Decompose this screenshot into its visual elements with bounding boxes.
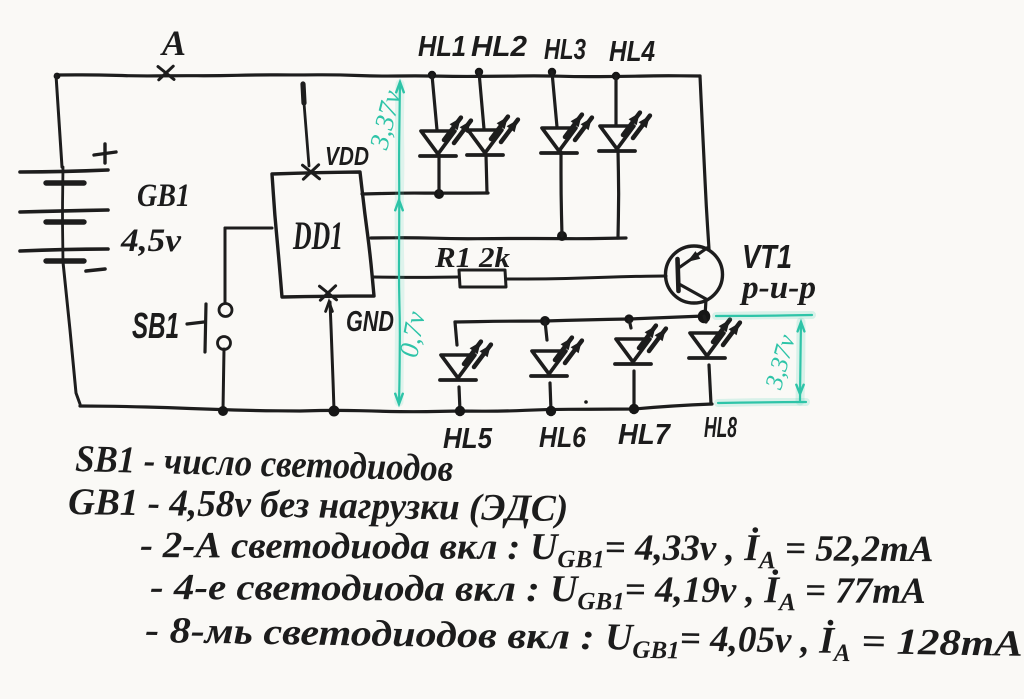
- svg-text:SB1: SB1: [132, 305, 179, 346]
- svg-text:HL7: HL7: [618, 419, 672, 451]
- svg-text:GB1 - 4,58v без нагрузки (ЭДС): GB1 - 4,58v без нагрузки (ЭДС): [68, 481, 569, 530]
- svg-text:HL4: HL4: [609, 36, 655, 68]
- svg-text:HL3: HL3: [544, 34, 586, 66]
- svg-text:HL2: HL2: [471, 31, 527, 63]
- svg-text:p-и-p: p-и-p: [739, 270, 816, 306]
- svg-text:DD1: DD1: [292, 213, 343, 258]
- svg-text:GB1: GB1: [137, 178, 190, 214]
- svg-text:GND: GND: [346, 306, 394, 338]
- svg-text:4,5v: 4,5v: [120, 223, 181, 259]
- svg-text:HL8: HL8: [704, 412, 738, 444]
- svg-text:VDD: VDD: [325, 141, 369, 171]
- svg-text:HL6: HL6: [539, 422, 587, 454]
- svg-text:HL1: HL1: [418, 31, 466, 63]
- svg-text:R1 2k: R1 2k: [434, 243, 510, 274]
- svg-text:A: A: [160, 23, 186, 63]
